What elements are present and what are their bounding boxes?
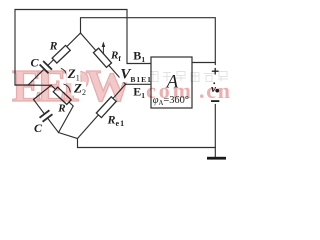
- wire bridge top to output line: [81, 18, 216, 65]
- label Z2: [72, 80, 87, 97]
- resistor Rf: [93, 48, 111, 67]
- svg-text:v: v: [211, 83, 216, 95]
- wire arm Re1: [78, 84, 126, 138]
- wire left horizontal to Z2 entry: [15, 84, 51, 86]
- resistor R (Z1 arm): [52, 45, 70, 63]
- wire E1 input: [126, 83, 152, 85]
- wire Z2 rhombus: [34, 85, 74, 132]
- wire arm Rf: [81, 33, 126, 84]
- resistor R (Z2): [53, 87, 71, 104]
- watermark com.cn: [146, 78, 230, 103]
- label minus output: [211, 100, 219, 102]
- svg-text:B1: B1: [133, 48, 145, 64]
- svg-text:C: C: [31, 55, 40, 69]
- brace arc for Z1: [61, 68, 67, 77]
- label E1: [132, 84, 146, 100]
- watermark EEPW: [12, 61, 133, 111]
- watermark chinese characters: [148, 72, 228, 82]
- capacitor C (Z1 arm): [39, 61, 52, 74]
- svg-text:Rf: Rf: [110, 49, 121, 63]
- op-amp A: [151, 57, 192, 108]
- svg-text:φA=360°: φA=360°: [153, 95, 189, 107]
- capacitor C (Z2): [39, 110, 53, 122]
- ground: [207, 157, 226, 160]
- brace arc for Z2: [64, 84, 71, 93]
- svg-text:R: R: [57, 102, 65, 114]
- wire Z2 exit to bottom node: [59, 133, 78, 139]
- wire bottom: [78, 139, 216, 157]
- svg-text:R: R: [49, 41, 58, 53]
- label V_B1E1: [120, 67, 152, 84]
- wire amplifier output: [192, 62, 215, 64]
- resistor Re1: [96, 97, 116, 118]
- svg-text:C: C: [34, 121, 43, 135]
- arrow of adjustable Rf: [102, 42, 106, 55]
- svg-text:A: A: [165, 71, 179, 92]
- label + output: [212, 68, 219, 75]
- label Z1: [66, 66, 80, 83]
- wire outer top-left loop to B1: [15, 10, 151, 86]
- svg-text:Re1: Re1: [107, 112, 126, 128]
- wire right vertical lower: [214, 105, 216, 148]
- wire arm Z1: [28, 33, 80, 85]
